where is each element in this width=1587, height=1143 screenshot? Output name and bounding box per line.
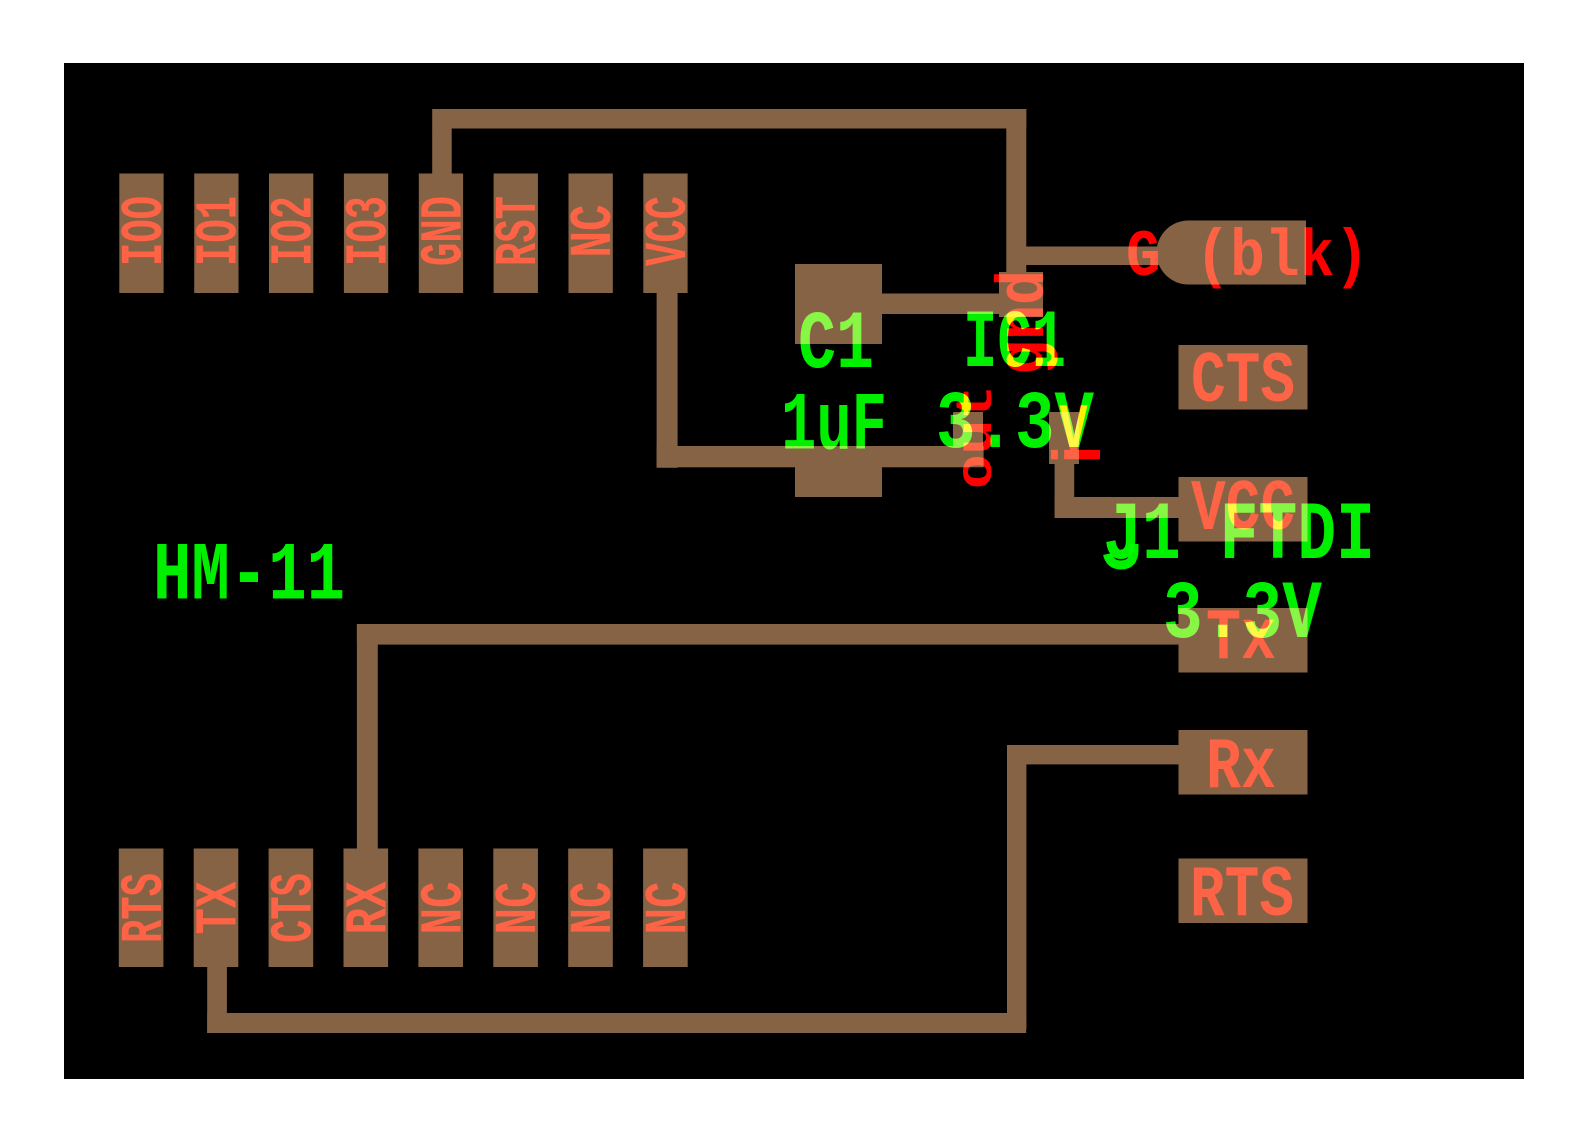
svg-text:NC: NC [561, 205, 628, 258]
svg-text:CTS: CTS [262, 873, 329, 943]
svg-text:IC1: IC1 [963, 297, 1066, 391]
svg-text:G (blk): G (blk) [1126, 220, 1369, 295]
svg-text:IO3: IO3 [336, 196, 403, 266]
svg-text:HM-11: HM-11 [153, 530, 345, 624]
svg-text:1uF: 1uF [781, 380, 887, 474]
svg-text:IO1: IO1 [187, 196, 254, 266]
svg-text:RTS: RTS [112, 873, 179, 943]
svg-text:VCC: VCC [636, 196, 703, 266]
svg-text:NC: NC [411, 882, 478, 935]
svg-text:IOO: IOO [112, 196, 179, 266]
svg-text:3.3V: 3.3V [936, 378, 1094, 472]
svg-text:Rx: Rx [1206, 727, 1276, 809]
svg-text:RTS: RTS [1190, 855, 1294, 937]
svg-text:3.3V: 3.3V [1163, 568, 1322, 662]
svg-text:RX: RX [336, 881, 403, 934]
svg-text:GND: GND [411, 196, 478, 266]
svg-text:RST: RST [486, 196, 553, 266]
svg-text:NC: NC [636, 882, 703, 935]
svg-text:NC: NC [486, 882, 553, 935]
svg-text:IO2: IO2 [262, 196, 329, 266]
svg-text:C1: C1 [798, 298, 874, 392]
svg-text:TX: TX [187, 881, 254, 934]
svg-text:NC: NC [561, 882, 628, 935]
svg-text:CTS: CTS [1191, 341, 1295, 423]
